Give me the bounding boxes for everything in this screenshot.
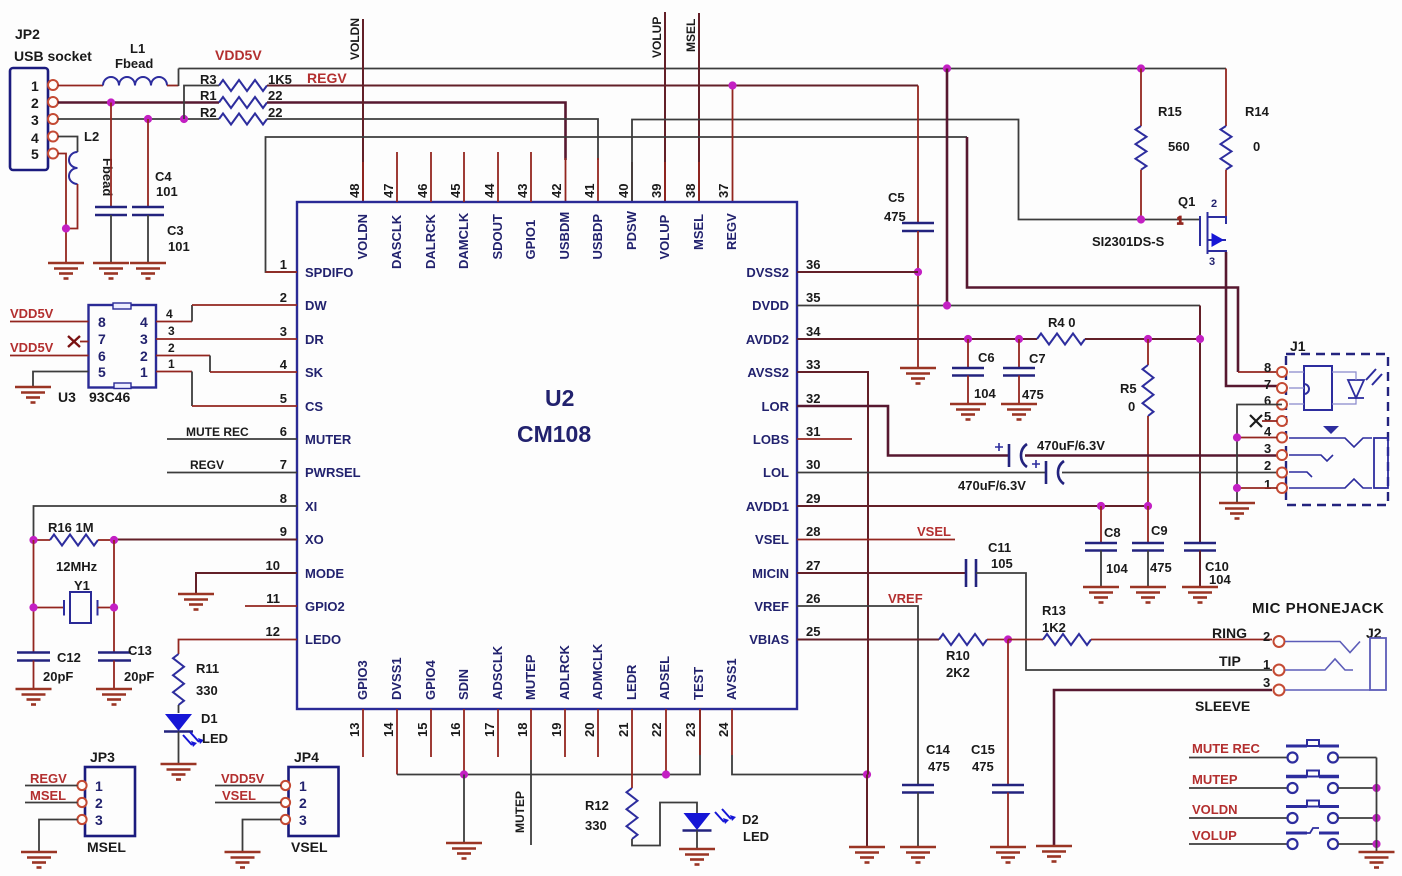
svg-text:8: 8 xyxy=(1264,360,1271,375)
J1 jack contact upper xyxy=(1289,438,1372,447)
svg-text:LED: LED xyxy=(743,829,769,844)
capacitor C10 104 xyxy=(1184,543,1231,587)
ground U3 pin5 xyxy=(15,387,51,403)
U2 pin 32 LOR label xyxy=(762,391,821,414)
svg-text:28: 28 xyxy=(806,524,820,539)
eeprom U3 93C46 body xyxy=(58,303,156,405)
U2 pin 33 AVSS2 label xyxy=(747,357,820,380)
svg-text:AVSS1: AVSS1 xyxy=(724,658,739,700)
U2 pin 47 stub xyxy=(396,152,398,202)
svg-text:3: 3 xyxy=(31,112,39,128)
capacitor C11 105 xyxy=(966,540,1013,587)
U2 pin 39 VOLUP label xyxy=(649,184,672,260)
U2 pin 6 MUTER label xyxy=(280,424,352,447)
U2 pin 15 stub xyxy=(430,709,432,757)
capacitor C12 20pF xyxy=(17,650,81,689)
svg-text:GPIO1: GPIO1 xyxy=(523,220,538,260)
svg-text:22: 22 xyxy=(649,723,664,737)
svg-text:LOL: LOL xyxy=(763,465,789,480)
transistor Q1 SI2301DS-S xyxy=(1092,194,1226,268)
U2 pin 31 LOBS label xyxy=(753,424,821,447)
U2 pin 20 ADMCLK label xyxy=(582,643,605,737)
svg-text:SK: SK xyxy=(305,365,324,380)
LED D1 xyxy=(164,711,228,764)
wire VBIAS pin25 to R10 xyxy=(797,639,939,641)
svg-text:23: 23 xyxy=(683,723,698,737)
U2 pin 2 DW label xyxy=(280,290,328,313)
ground SLEEVE xyxy=(1036,846,1072,862)
wire JP2 pin2 to R1 (USB D-) xyxy=(58,101,219,104)
svg-text:C6: C6 xyxy=(978,350,995,365)
svg-text:93C46: 93C46 xyxy=(89,389,130,405)
svg-text:101: 101 xyxy=(156,184,178,199)
svg-text:4: 4 xyxy=(140,314,148,330)
svg-text:VSEL: VSEL xyxy=(755,532,789,547)
svg-text:R12: R12 xyxy=(585,798,609,813)
U2 pin 44 SDOUT label xyxy=(482,183,505,260)
svg-text:48: 48 xyxy=(347,184,362,198)
label RING xyxy=(1212,625,1270,644)
U2 pin 47 DASCLK label xyxy=(381,184,404,269)
svg-text:MIC PHONEJACK: MIC PHONEJACK xyxy=(1252,600,1384,617)
wire VOLDN stub red xyxy=(362,162,364,202)
resistor R13 1K2 xyxy=(1008,603,1272,645)
svg-text:C7: C7 xyxy=(1029,351,1046,366)
svg-text:VDD5V: VDD5V xyxy=(10,306,54,321)
resistor R5 0 xyxy=(1120,339,1154,506)
junction MUTEP gnd xyxy=(1372,784,1380,792)
svg-text:31: 31 xyxy=(806,424,820,439)
wire AVSS1 pin24 to gnd rail xyxy=(731,709,733,755)
wire LOR pin32 to upper 470uF xyxy=(797,406,1009,456)
wire LOBS pin31 stub xyxy=(797,438,852,440)
ground C14 xyxy=(900,847,936,863)
resistor R11 330 xyxy=(173,654,219,713)
wire DVSS1 pin14 drop xyxy=(396,709,398,775)
svg-text:1: 1 xyxy=(31,78,39,94)
label VDD5V at U3 pin6 xyxy=(10,340,89,356)
svg-text:Fbead: Fbead xyxy=(115,56,153,71)
J1 pin 8 xyxy=(1264,360,1287,377)
svg-text:CM108: CM108 xyxy=(517,421,591,447)
svg-text:MSEL: MSEL xyxy=(691,214,706,250)
U2 pin 24 AVSS1 label xyxy=(716,658,739,737)
svg-text:TEST: TEST xyxy=(691,667,706,700)
wire VDD5V top rail xyxy=(179,68,1227,70)
svg-text:R2: R2 xyxy=(200,105,217,120)
J1 LED symbol xyxy=(1332,369,1382,404)
svg-text:6: 6 xyxy=(280,424,287,439)
capacitor C4 101 xyxy=(95,103,178,264)
svg-text:0: 0 xyxy=(1128,399,1135,414)
svg-text:475: 475 xyxy=(928,759,950,774)
node MSEL vertical with label xyxy=(684,13,699,202)
svg-text:SLEEVE: SLEEVE xyxy=(1195,698,1250,714)
wire U2 XO net xyxy=(114,539,297,541)
JP4 pin1 circle xyxy=(281,781,290,790)
svg-text:22: 22 xyxy=(268,88,282,103)
capacitor 470uF/6.3V lower xyxy=(958,460,1277,493)
svg-text:101: 101 xyxy=(168,239,190,254)
svg-text:17: 17 xyxy=(482,723,497,737)
capacitor C5 475 xyxy=(884,86,934,369)
JP4 pin2 circle xyxy=(281,798,290,807)
svg-text:C14: C14 xyxy=(926,742,951,757)
U2 pin 15 GPIO4 label xyxy=(415,659,438,737)
wire JP2 pin1 to L1 xyxy=(58,85,103,87)
junction R3 tap on D+ xyxy=(180,115,188,123)
wire SPDIFO net top line xyxy=(266,137,968,272)
svg-text:SDIN: SDIN xyxy=(456,669,471,700)
svg-text:SPDIFO: SPDIFO xyxy=(305,265,353,280)
U2 pin 29 AVDD1 label xyxy=(746,491,821,514)
svg-text:C13: C13 xyxy=(128,643,152,658)
J1 pin 3 xyxy=(1264,441,1287,460)
wire TEST pin23 stub red xyxy=(699,709,701,755)
junction XI R16 left xyxy=(29,536,37,544)
U2 pin 19 stub xyxy=(564,709,566,757)
JP2 pin 5 circle xyxy=(48,149,58,159)
J1 pin 2 xyxy=(1264,458,1287,478)
op-amp U2 CM108 chip body xyxy=(297,202,797,709)
svg-text:39: 39 xyxy=(649,184,664,198)
svg-text:REGV: REGV xyxy=(724,213,739,250)
ground JP3 xyxy=(21,852,57,868)
svg-text:DVSS1: DVSS1 xyxy=(389,657,404,700)
wire AVDD2 pin34 rail xyxy=(797,338,1037,340)
resistor R16 1M xyxy=(34,520,115,546)
svg-text:VOLDN: VOLDN xyxy=(355,214,370,260)
U2 pin 8 XI label xyxy=(280,491,318,514)
svg-text:AVSS2: AVSS2 xyxy=(747,365,789,380)
wire MSEL stub red xyxy=(698,162,700,202)
svg-text:ADSCLK: ADSCLK xyxy=(490,645,505,700)
wire USBDP stub to pin41 xyxy=(597,158,599,202)
svg-text:SI2301DS-S: SI2301DS-S xyxy=(1092,234,1165,249)
svg-text:11: 11 xyxy=(266,591,280,606)
J1 pin 1 xyxy=(1237,477,1287,493)
svg-text:R11: R11 xyxy=(196,661,219,676)
wire U2 GPIO2 stub xyxy=(245,605,297,607)
U2 pin 21 LEDR label xyxy=(616,664,639,737)
wire VSEL pin28 with label xyxy=(797,524,955,540)
wire R3 to REGV rail xyxy=(267,85,918,87)
J1 pin 6 xyxy=(1264,393,1287,410)
svg-text:5: 5 xyxy=(31,146,39,162)
connector J1 dashed box xyxy=(1286,338,1388,505)
svg-text:C15: C15 xyxy=(971,742,995,757)
svg-text:1: 1 xyxy=(299,778,307,794)
junction C6 tap xyxy=(964,335,972,343)
svg-text:27: 27 xyxy=(806,558,820,573)
wire LEDR pin21 to R12 xyxy=(631,709,633,788)
resistor R15 560 xyxy=(1136,69,1190,220)
U2 pin 4 SK label xyxy=(280,357,324,380)
svg-text:VOLUP: VOLUP xyxy=(650,17,664,58)
svg-text:VSEL: VSEL xyxy=(917,524,951,539)
junction R15 bottom Q1 gate xyxy=(1137,215,1145,223)
junction DVDD riser xyxy=(943,301,951,309)
svg-text:XO: XO xyxy=(305,532,324,547)
junction C3 tap on D+ xyxy=(144,115,152,123)
junction DVSS2 xyxy=(914,268,922,276)
svg-text:0: 0 xyxy=(1253,139,1260,154)
svg-text:12MHz: 12MHz xyxy=(56,559,98,574)
svg-text:8: 8 xyxy=(280,491,287,506)
svg-text:VOLUP: VOLUP xyxy=(657,214,672,259)
svg-text:REGV: REGV xyxy=(190,458,224,472)
svg-text:JP2: JP2 xyxy=(15,26,40,42)
capacitor C8 104 xyxy=(1085,506,1128,587)
svg-text:330: 330 xyxy=(196,683,218,698)
U2 pin 22 ADSEL label xyxy=(649,656,672,737)
svg-text:VBIAS: VBIAS xyxy=(749,632,789,647)
svg-text:1: 1 xyxy=(1177,215,1183,227)
capacitor C15 475 xyxy=(971,640,1024,848)
wire U3 pin3 to U2 DR xyxy=(156,324,297,339)
svg-text:MSEL: MSEL xyxy=(87,839,126,855)
svg-text:DVSS2: DVSS2 xyxy=(746,265,789,280)
svg-text:2: 2 xyxy=(140,348,148,364)
svg-text:3: 3 xyxy=(1209,256,1215,268)
junction Y1 left xyxy=(29,603,37,611)
U2 pin 43 GPIO1 label xyxy=(515,184,538,260)
svg-text:1: 1 xyxy=(280,257,287,272)
wire U2 XI net xyxy=(34,506,298,540)
wire U2 PWRSEL with REGV label xyxy=(167,458,297,473)
svg-text:14: 14 xyxy=(381,722,396,737)
label VDD5V at JP4 pin1 xyxy=(215,771,281,786)
junction VDD5V to DVDD xyxy=(943,64,951,72)
junction VDD5V to R15 xyxy=(1137,64,1145,72)
svg-text:2: 2 xyxy=(1211,198,1217,210)
svg-text:2K2: 2K2 xyxy=(946,665,970,680)
U2 pin 41 USBDP label xyxy=(582,184,605,260)
svg-text:20: 20 xyxy=(582,723,597,737)
J1 jack optical box symbol xyxy=(1289,366,1332,410)
svg-text:R3: R3 xyxy=(200,72,217,87)
svg-text:3: 3 xyxy=(140,331,148,347)
J1 jack contact lower1 xyxy=(1289,479,1372,488)
U2 pin 30 LOL label xyxy=(763,457,820,480)
U2 pin 26 VREF label xyxy=(754,591,820,614)
svg-text:38: 38 xyxy=(683,184,698,198)
ground C3 xyxy=(130,263,166,279)
U2 pin 38 MSEL label xyxy=(683,184,706,250)
svg-text:R14: R14 xyxy=(1245,104,1270,119)
svg-text:2: 2 xyxy=(280,290,287,305)
U2 pin 7 PWRSEL label xyxy=(280,457,361,480)
svg-text:2: 2 xyxy=(1264,458,1271,473)
ground C7 xyxy=(1001,404,1037,420)
svg-text:32: 32 xyxy=(806,391,820,406)
svg-text:CS: CS xyxy=(305,399,323,414)
svg-text:MODE: MODE xyxy=(305,566,344,581)
svg-text:2: 2 xyxy=(168,341,175,355)
svg-text:1: 1 xyxy=(95,778,103,794)
junction Y1 right xyxy=(110,603,118,611)
svg-text:41: 41 xyxy=(582,184,597,198)
wire J1 pin8 horizontal xyxy=(1238,371,1277,373)
svg-text:6: 6 xyxy=(1264,393,1271,408)
svg-text:D1: D1 xyxy=(201,711,218,726)
node MUTEP net stub with label xyxy=(513,709,531,845)
U2 pin 20 stub xyxy=(597,709,599,757)
svg-text:VOLDN: VOLDN xyxy=(348,18,362,60)
svg-text:VDD5V: VDD5V xyxy=(215,47,262,63)
svg-text:GPIO3: GPIO3 xyxy=(355,660,370,700)
svg-text:16: 16 xyxy=(448,723,463,737)
U2 pin 17 stub xyxy=(497,709,499,757)
wire JP3 pin3 to ground xyxy=(39,820,78,853)
svg-text:2: 2 xyxy=(95,795,103,811)
svg-text:4: 4 xyxy=(280,357,288,372)
ground SDIN rail xyxy=(446,843,482,859)
svg-text:LOR: LOR xyxy=(762,399,790,414)
ground C13 xyxy=(96,689,132,705)
svg-text:105: 105 xyxy=(991,556,1013,571)
label SLEEVE xyxy=(1195,675,1270,714)
U2 pin 12 LEDO label xyxy=(266,624,342,647)
ground MODE xyxy=(178,594,214,610)
wire VOLUP stub red xyxy=(664,162,666,202)
wire USBDM stub to pin42 xyxy=(565,158,567,202)
svg-text:29: 29 xyxy=(806,491,820,506)
svg-text:DR: DR xyxy=(305,332,324,347)
junction XO R16 right xyxy=(110,536,118,544)
svg-text:USBDP: USBDP xyxy=(590,214,605,260)
U2 pin 9 XO label xyxy=(280,524,324,547)
svg-text:USBDM: USBDM xyxy=(557,212,572,260)
wire J1 ground bus xyxy=(1237,405,1282,504)
wire buttons ground bus xyxy=(1376,758,1378,853)
svg-text:2: 2 xyxy=(31,95,39,111)
wire JP4 pin3 to ground xyxy=(243,820,282,853)
svg-text:R5: R5 xyxy=(1120,381,1137,396)
svg-text:GPIO4: GPIO4 xyxy=(423,659,438,700)
U2 pin 36 DVSS2 label xyxy=(746,257,820,280)
svg-text:560: 560 xyxy=(1168,139,1190,154)
resistor R10 2K2 xyxy=(939,634,1008,680)
ground JP4 xyxy=(225,852,261,868)
U2 pin 13 stub xyxy=(362,709,364,757)
svg-text:2: 2 xyxy=(299,795,307,811)
svg-text:Fbead: Fbead xyxy=(100,158,115,196)
resistor R4 0 xyxy=(1037,315,1200,345)
ground DVSS2 C5 xyxy=(900,368,936,384)
node VOLUP vertical with label xyxy=(650,12,665,202)
button MUTE REC xyxy=(1189,740,1377,763)
wire AVSS1 rail xyxy=(732,755,867,775)
J2 pin 2 circle xyxy=(1274,636,1285,647)
capacitor 470uF/6.3V upper xyxy=(995,438,1277,467)
wire U3 pin4 to U2 DW xyxy=(156,305,297,322)
svg-text:ADSEL: ADSEL xyxy=(657,656,672,700)
capacitor C13 20pF xyxy=(98,643,154,689)
wire JP2 pin4 to L2 xyxy=(58,137,78,153)
svg-text:475: 475 xyxy=(972,759,994,774)
wire R12 to D2 anode xyxy=(632,803,697,846)
svg-text:ADMCLK: ADMCLK xyxy=(590,643,605,700)
svg-text:GPIO2: GPIO2 xyxy=(305,599,345,614)
svg-text:REGV: REGV xyxy=(307,70,347,86)
U2 pin 10 MODE label xyxy=(266,558,345,581)
U2 pin 40 PDSW label xyxy=(616,184,639,250)
svg-text:C4: C4 xyxy=(155,169,172,184)
svg-text:9: 9 xyxy=(280,524,287,539)
wire DVDD pin35 net xyxy=(797,305,1200,307)
svg-text:30: 30 xyxy=(806,457,820,472)
ground C12 xyxy=(16,689,52,705)
svg-text:12: 12 xyxy=(266,624,280,639)
svg-text:1: 1 xyxy=(168,357,175,371)
svg-text:21: 21 xyxy=(616,723,631,737)
svg-text:VOLUP: VOLUP xyxy=(1192,828,1237,843)
svg-text:R15: R15 xyxy=(1158,104,1182,119)
svg-text:18: 18 xyxy=(515,723,530,737)
wire REGV stub to pin37 xyxy=(732,85,734,202)
wire ADSEL pin22 drop xyxy=(665,709,667,775)
capacitor C6 104 xyxy=(952,339,996,404)
svg-text:R4 0: R4 0 xyxy=(1048,315,1075,330)
svg-text:33: 33 xyxy=(806,357,820,372)
ground D1 xyxy=(161,764,197,780)
svg-text:13: 13 xyxy=(347,723,362,737)
svg-text:LEDO: LEDO xyxy=(305,632,341,647)
svg-text:2: 2 xyxy=(1263,629,1270,644)
wire AVSS2 pin33 net xyxy=(797,372,868,775)
wire SPDIFO pin1 lead xyxy=(266,271,298,273)
button VOLUP xyxy=(1189,828,1377,849)
svg-text:37: 37 xyxy=(716,184,731,198)
label TIP xyxy=(1219,653,1270,672)
svg-text:C5: C5 xyxy=(888,190,905,205)
resistor R2 22 xyxy=(200,105,282,125)
resistor R3 1K5 xyxy=(200,72,292,91)
svg-text:LEDR: LEDR xyxy=(624,664,639,700)
svg-text:VDD5V: VDD5V xyxy=(221,771,265,786)
J2 jack symbol xyxy=(1285,638,1386,690)
wire SLEEVE to ground xyxy=(1054,690,1272,846)
svg-text:C3: C3 xyxy=(167,223,184,238)
svg-text:20pF: 20pF xyxy=(124,669,154,684)
capacitor C9 475 xyxy=(1132,506,1172,587)
svg-text:DASCLK: DASCLK xyxy=(389,214,404,269)
wire C11 to TIP xyxy=(976,573,1272,670)
svg-text:35: 35 xyxy=(806,290,820,305)
U2 pin 46 stub xyxy=(430,152,432,202)
svg-text:42: 42 xyxy=(549,184,564,198)
LED D2 xyxy=(683,809,770,849)
junction R5 top xyxy=(1144,335,1152,343)
U2 pin 19 ADLRCK label xyxy=(549,645,572,737)
svg-text:J1: J1 xyxy=(1290,338,1306,354)
svg-text:MSEL: MSEL xyxy=(684,19,698,52)
svg-text:RING: RING xyxy=(1212,625,1247,641)
inductor L1 Fbead xyxy=(103,41,167,86)
svg-text:JP4: JP4 xyxy=(294,749,319,765)
svg-text:PWRSEL: PWRSEL xyxy=(305,465,361,480)
button MUTEP xyxy=(1189,771,1377,794)
svg-text:Q1: Q1 xyxy=(1178,194,1195,209)
svg-text:C8: C8 xyxy=(1104,525,1121,540)
U2 pin 37 REGV label xyxy=(716,184,739,250)
svg-text:8: 8 xyxy=(98,314,106,330)
inductor L2 Fbead xyxy=(69,129,115,196)
junction ADSEL rail xyxy=(662,770,670,778)
node U3 pin7 no-connect X xyxy=(68,336,89,347)
svg-text:ADLRCK: ADLRCK xyxy=(557,645,572,700)
